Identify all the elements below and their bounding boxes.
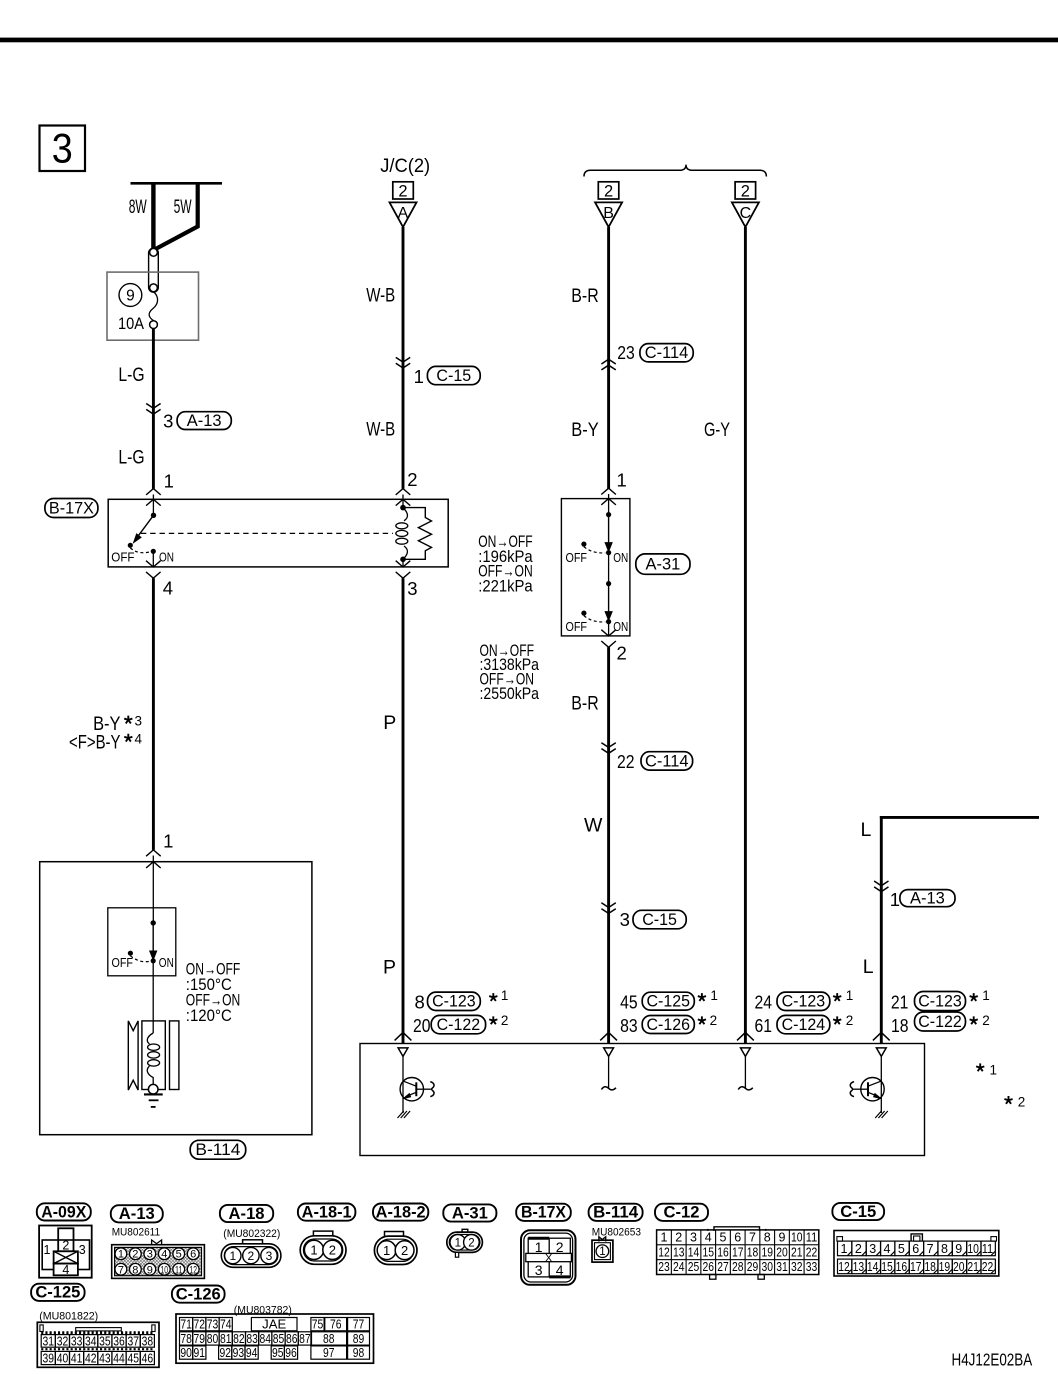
svg-text:31: 31 (43, 1334, 55, 1348)
A-31 switch1 dashed arc (584, 547, 605, 553)
svg-text:13: 13 (673, 1245, 685, 1259)
svg-text:A-18-2: A-18-2 (376, 1203, 426, 1222)
fuse number circle 9 (119, 284, 142, 307)
svg-text:36: 36 (113, 1334, 125, 1348)
wire L horizontal feed (880, 816, 1039, 819)
svg-text:35: 35 (99, 1334, 111, 1348)
svg-text:46: 46 (142, 1351, 154, 1365)
svg-text:C: C (740, 205, 752, 222)
svg-text:33: 33 (806, 1260, 818, 1274)
fuse terminal circle mid (150, 284, 158, 292)
component box B-17X (108, 499, 448, 567)
svg-text:ON: ON (613, 619, 628, 634)
svg-text:3: 3 (535, 1262, 543, 1278)
J/C triangle A (390, 202, 417, 227)
svg-text:1: 1 (310, 1243, 317, 1258)
svg-text:45: 45 (127, 1351, 139, 1365)
transistor symbol left (thermistor sensor) (402, 1056, 404, 1113)
svg-text:9: 9 (955, 1242, 962, 1256)
svg-text:2: 2 (401, 1243, 408, 1258)
svg-text:22: 22 (617, 751, 635, 772)
svg-text:A-31: A-31 (452, 1203, 488, 1222)
svg-text:42: 42 (85, 1351, 97, 1365)
svg-text:84: 84 (260, 1332, 272, 1346)
pin socket triangle (604, 1048, 614, 1057)
svg-text:28: 28 (732, 1260, 744, 1274)
svg-text:12: 12 (838, 1260, 850, 1274)
svg-text::221kPa: :221kPa (478, 577, 533, 595)
svg-text:29: 29 (747, 1260, 759, 1274)
svg-text:B-R: B-R (571, 692, 598, 714)
svg-text:1: 1 (535, 1239, 543, 1255)
svg-text:6: 6 (734, 1231, 741, 1245)
svg-text:3: 3 (147, 1249, 153, 1261)
svg-text:C-123: C-123 (782, 993, 826, 1011)
wire B-Y from B-17X to B-114 (152, 578, 155, 850)
svg-text:30: 30 (762, 1260, 774, 1274)
svg-text:3: 3 (52, 125, 73, 172)
svg-text:4: 4 (163, 578, 173, 599)
connector label capsule C-126 (172, 1286, 225, 1303)
svg-text:1: 1 (617, 469, 627, 490)
svg-text::120°C: :120°C (186, 1007, 232, 1025)
svg-text:C-15: C-15 (436, 367, 471, 385)
svg-text:ON: ON (159, 549, 174, 564)
svg-text:C-124: C-124 (782, 1016, 826, 1034)
svg-text:1: 1 (661, 1231, 668, 1245)
J/C triangle B (595, 202, 622, 227)
svg-text:1: 1 (501, 988, 509, 1003)
page number box 3 (40, 126, 86, 172)
svg-text:G-Y: G-Y (704, 419, 730, 441)
A-31 switch2 ON dot (606, 619, 611, 624)
svg-text:43: 43 (99, 1351, 111, 1365)
svg-text:22: 22 (806, 1245, 818, 1259)
svg-text:94: 94 (246, 1346, 258, 1360)
svg-text:3: 3 (266, 1249, 273, 1263)
compressor pin chevron (873, 1032, 890, 1040)
svg-text:1: 1 (990, 1063, 998, 1078)
svg-text:L-G: L-G (118, 446, 144, 468)
svg-text:14: 14 (867, 1260, 879, 1274)
capsule label B-17X (45, 499, 98, 518)
svg-text:8: 8 (941, 1242, 948, 1256)
connector label capsule C-12 (655, 1204, 708, 1221)
svg-text:(MU801822): (MU801822) (39, 1311, 98, 1323)
svg-text:1: 1 (840, 1242, 847, 1256)
svg-text:7: 7 (749, 1231, 756, 1245)
B-17X ON contact dot (151, 549, 156, 554)
svg-text:A-09X: A-09X (41, 1202, 87, 1221)
svg-text:2: 2 (398, 183, 407, 201)
svg-text:2: 2 (617, 643, 627, 664)
svg-text:W: W (584, 815, 603, 837)
svg-text:39: 39 (43, 1351, 55, 1365)
svg-text:83: 83 (246, 1332, 258, 1346)
svg-text:82: 82 (233, 1332, 245, 1346)
svg-text:27: 27 (717, 1260, 729, 1274)
svg-text:17: 17 (910, 1260, 922, 1274)
svg-text:9: 9 (126, 288, 135, 305)
B-17X pin diagram (521, 1230, 576, 1285)
svg-text:2: 2 (846, 1013, 854, 1028)
svg-text:B-114: B-114 (593, 1203, 639, 1222)
A-31 link wire (608, 553, 610, 584)
svg-text:24: 24 (673, 1260, 685, 1274)
svg-text:1: 1 (846, 988, 854, 1003)
svg-text:74: 74 (220, 1318, 232, 1332)
svg-text:OFF: OFF (566, 550, 588, 565)
A-09X pin diagram (39, 1226, 92, 1278)
svg-text:11: 11 (175, 1264, 183, 1276)
svg-text:3: 3 (690, 1231, 697, 1245)
compressor pin chevron (600, 1032, 617, 1040)
svg-text:89: 89 (353, 1332, 365, 1346)
svg-text:2: 2 (132, 1249, 138, 1261)
svg-text:5W: 5W (174, 196, 192, 218)
A-31 switch2 moving contact (608, 584, 610, 612)
svg-text:4: 4 (161, 1249, 167, 1261)
wire B-R lower from A-31 (607, 647, 610, 1043)
svg-text:78: 78 (180, 1332, 192, 1346)
svg-text:8: 8 (764, 1231, 771, 1245)
svg-text:<F>B-Y: <F>B-Y (69, 731, 121, 753)
A-31 switch2 OFF dot (581, 611, 586, 616)
svg-text:4: 4 (62, 1263, 69, 1277)
svg-text:95: 95 (272, 1346, 284, 1360)
svg-text:4: 4 (705, 1231, 712, 1245)
J/C box 2 (B) (598, 182, 619, 199)
svg-text:77: 77 (353, 1318, 365, 1332)
svg-text:C-15: C-15 (642, 911, 677, 929)
motor housing middle frame (142, 1021, 165, 1090)
motor housing left notched band (128, 1021, 138, 1090)
svg-text:6: 6 (190, 1249, 196, 1261)
svg-text:10: 10 (967, 1242, 979, 1256)
B-17X OFF contact dot (128, 543, 133, 548)
component box A-31 dual pressure switch (561, 499, 630, 636)
svg-text:21: 21 (791, 1245, 803, 1259)
component box compressor assembly (360, 1044, 925, 1156)
svg-text:C-126: C-126 (647, 1016, 691, 1034)
svg-text:3: 3 (163, 411, 173, 432)
pin socket triangle (876, 1048, 886, 1057)
connector crossing 3 C-15 (601, 903, 615, 908)
B-17X relay top node dot (402, 495, 404, 508)
svg-text:5: 5 (176, 1249, 182, 1261)
J/C box 2 (C) (735, 182, 756, 199)
A-31 switch1 pivot dot (606, 512, 611, 517)
svg-text:72: 72 (194, 1318, 206, 1332)
J/C triangle C (732, 202, 759, 227)
svg-text:92: 92 (219, 1346, 231, 1360)
svg-text:A: A (398, 205, 409, 222)
fuse terminal circle bottom (150, 321, 158, 329)
fuse terminal circle top (150, 248, 158, 256)
svg-text:86: 86 (286, 1332, 298, 1346)
svg-text:H4J12E02BA: H4J12E02BA (952, 1349, 1033, 1369)
svg-text:W-B: W-B (366, 284, 395, 306)
svg-text:73: 73 (207, 1318, 219, 1332)
svg-text:10: 10 (161, 1264, 169, 1276)
svg-text:4: 4 (884, 1242, 891, 1256)
mechanical link dashed line (141, 532, 393, 534)
svg-text:B-17X: B-17X (49, 499, 94, 517)
connector label capsule A-18-1 (298, 1204, 356, 1221)
capsule label B-114 (190, 1140, 246, 1159)
svg-text:A-13: A-13 (119, 1204, 155, 1223)
svg-text:C-125: C-125 (647, 993, 691, 1011)
svg-text:9: 9 (147, 1264, 153, 1276)
svg-text:19: 19 (762, 1245, 774, 1259)
svg-text:C-123: C-123 (918, 992, 962, 1010)
ground bars (144, 1093, 163, 1095)
svg-text:B-Y: B-Y (571, 419, 598, 441)
svg-text:2: 2 (329, 1243, 336, 1258)
svg-text:31: 31 (776, 1260, 788, 1274)
svg-text:L: L (863, 956, 874, 978)
svg-text:2: 2 (501, 1013, 509, 1028)
svg-text:20: 20 (776, 1245, 788, 1259)
svg-text:A-13: A-13 (187, 412, 222, 430)
ground left (398, 1111, 411, 1118)
svg-text:3: 3 (135, 713, 143, 728)
pin socket triangle (398, 1048, 408, 1057)
svg-text:91: 91 (194, 1346, 206, 1360)
transistor symbol right (880, 1056, 882, 1113)
C-126 pin diagram (176, 1314, 374, 1363)
svg-text:10: 10 (791, 1231, 803, 1245)
svg-text:2: 2 (468, 1237, 474, 1249)
connector crossing 3 A-13 (146, 404, 160, 409)
A-31 switch2 pivot dot (606, 581, 611, 586)
A-31 switch1 moving contact (608, 515, 610, 543)
svg-text:18: 18 (891, 1015, 909, 1036)
brace over J/C B and C (584, 165, 766, 177)
svg-text:C-12: C-12 (664, 1203, 700, 1222)
svg-text:1: 1 (44, 1243, 51, 1257)
connector label capsule A-18 (220, 1205, 273, 1222)
svg-text:11: 11 (806, 1231, 818, 1245)
svg-text:97: 97 (323, 1346, 335, 1360)
svg-text:8: 8 (415, 991, 425, 1012)
connector label capsule A-18-2 (373, 1204, 428, 1221)
wire 8W vertical feed (151, 183, 155, 250)
svg-text:88: 88 (323, 1332, 335, 1346)
C-125 pin diagram (37, 1322, 159, 1367)
svg-text:37: 37 (127, 1334, 139, 1348)
A-31 switch2 dashed arc (584, 616, 605, 622)
svg-text:20: 20 (953, 1260, 965, 1274)
motor coil winding (147, 1033, 153, 1044)
svg-text:1: 1 (455, 1237, 461, 1249)
svg-text:C-114: C-114 (645, 752, 689, 770)
svg-text:1: 1 (982, 988, 990, 1003)
svg-text:5: 5 (898, 1242, 905, 1256)
svg-text:P: P (383, 957, 396, 979)
B-114 pin diagram (599, 1237, 606, 1242)
svg-text:12: 12 (658, 1245, 670, 1259)
wire B-R from J/C B (607, 227, 610, 489)
component box B-114 (40, 862, 312, 1135)
svg-text:41: 41 (71, 1351, 83, 1365)
svg-text:2: 2 (1018, 1095, 1026, 1110)
svg-text:3: 3 (620, 909, 630, 930)
svg-text:C-15: C-15 (840, 1202, 876, 1221)
connector label capsule A-13 (111, 1205, 163, 1222)
wire G-Y from J/C C to compressor (744, 227, 747, 1044)
footnote *2 (1004, 1096, 1012, 1104)
svg-text:2: 2 (248, 1249, 255, 1263)
svg-text:A-13: A-13 (910, 890, 945, 908)
C-15 pin diagram (834, 1231, 999, 1277)
wire continuation squiggle mid-left (608, 1056, 610, 1088)
svg-text:38: 38 (142, 1334, 154, 1348)
svg-text:W-B: W-B (366, 418, 395, 440)
svg-text:11: 11 (982, 1242, 994, 1256)
svg-text:L: L (861, 819, 872, 841)
B-17X relay bottom node dot (400, 557, 406, 563)
compressor pin chevron (737, 1032, 754, 1040)
svg-text:(MU802322): (MU802322) (223, 1228, 280, 1240)
svg-text:8W: 8W (129, 196, 147, 218)
svg-text:16: 16 (717, 1245, 729, 1259)
svg-text:2: 2 (556, 1239, 564, 1255)
wire switch to motor coil (152, 961, 154, 1033)
fuse box outline (107, 272, 199, 340)
svg-text:3: 3 (79, 1243, 86, 1257)
svg-text:33: 33 (71, 1334, 83, 1348)
svg-text:4: 4 (135, 731, 143, 746)
svg-text:25: 25 (688, 1260, 700, 1274)
svg-text::2550kPa: :2550kPa (480, 685, 540, 703)
svg-text:C-122: C-122 (437, 1016, 481, 1034)
svg-text:1: 1 (414, 366, 424, 387)
svg-text:C-123: C-123 (432, 993, 476, 1011)
svg-text:19: 19 (939, 1260, 951, 1274)
svg-text:23: 23 (658, 1260, 670, 1274)
svg-text:ON: ON (613, 550, 628, 565)
svg-text:26: 26 (703, 1260, 715, 1274)
footnote *1 (976, 1063, 984, 1071)
svg-text:2: 2 (675, 1231, 682, 1245)
A-18 pin diagram (243, 1240, 263, 1245)
svg-text:MU802611: MU802611 (112, 1227, 160, 1239)
svg-text:21: 21 (891, 991, 909, 1012)
svg-text:1: 1 (890, 889, 900, 910)
A-18-2 pin diagram (385, 1232, 404, 1237)
svg-text:3: 3 (407, 578, 417, 599)
pin socket triangle (741, 1048, 751, 1057)
svg-text:A-31: A-31 (646, 556, 681, 574)
svg-text:7: 7 (118, 1264, 124, 1276)
wire W-B from J/C to B-17X (402, 227, 405, 489)
A-13 pin diagram (152, 1240, 162, 1245)
svg-text:18: 18 (924, 1260, 936, 1274)
svg-text:87: 87 (299, 1332, 311, 1346)
svg-text:1: 1 (599, 1246, 605, 1258)
A-31 pin diagram (462, 1229, 468, 1232)
connector crossing 1 A-13 (874, 881, 888, 886)
svg-text:B-R: B-R (571, 285, 598, 307)
svg-text:80: 80 (207, 1332, 219, 1346)
capsule label A-31 (636, 554, 690, 574)
A-31 wire to pin 2 (608, 622, 610, 636)
J/C box 2 (A) (393, 182, 414, 199)
svg-text:1: 1 (118, 1249, 124, 1261)
wire 5W feed (155, 183, 198, 249)
svg-text:3: 3 (869, 1242, 876, 1256)
svg-text:45: 45 (620, 991, 638, 1012)
svg-text:93: 93 (233, 1346, 245, 1360)
svg-text:32: 32 (57, 1334, 69, 1348)
svg-text:6: 6 (912, 1242, 919, 1256)
fusible link holder (149, 248, 159, 292)
svg-text:1: 1 (710, 988, 718, 1003)
svg-text:2: 2 (741, 183, 750, 201)
compressor pin chevron (395, 1032, 412, 1040)
svg-text:B-17X: B-17X (521, 1203, 567, 1222)
thermo dashed throw arc (130, 956, 150, 962)
svg-text:83: 83 (620, 1015, 638, 1036)
connector crossing 22 C-114 (601, 743, 615, 748)
svg-text:34: 34 (85, 1334, 97, 1348)
svg-text:C-122: C-122 (918, 1013, 962, 1031)
svg-text:10A: 10A (118, 315, 144, 333)
B-17X dashed throw arc (130, 548, 150, 553)
svg-text:J/C(2): J/C(2) (380, 156, 430, 177)
svg-text:A-18: A-18 (229, 1204, 265, 1223)
svg-text:OFF: OFF (111, 549, 134, 564)
svg-text:JAE: JAE (262, 1318, 286, 1332)
svg-text:2: 2 (407, 469, 417, 490)
svg-text:1: 1 (383, 1243, 390, 1258)
svg-text:40: 40 (57, 1351, 69, 1365)
B-114 thermo switch box (108, 908, 176, 976)
A-31 wire to first switch (608, 494, 610, 515)
fuse element squiggle (149, 292, 157, 321)
B-17X wire ON to pin 4 (152, 551, 154, 567)
svg-text:9: 9 (779, 1231, 786, 1245)
svg-text:1: 1 (229, 1249, 236, 1263)
svg-text:14: 14 (688, 1245, 700, 1259)
ground right (875, 1111, 888, 1118)
wire L-G from fuse to B-17X (152, 329, 155, 489)
connector label capsule C-15 (832, 1203, 884, 1220)
svg-text:71: 71 (180, 1318, 192, 1332)
svg-text:16: 16 (896, 1260, 908, 1274)
svg-text:90: 90 (180, 1346, 192, 1360)
svg-text:98: 98 (353, 1346, 365, 1360)
connector label capsule C-125 (31, 1284, 85, 1301)
svg-text:8: 8 (132, 1264, 138, 1276)
svg-text:2: 2 (62, 1239, 69, 1253)
C-12 pin diagram (714, 1227, 760, 1231)
svg-text:61: 61 (755, 1015, 773, 1036)
thermo switch moving contact (152, 923, 154, 952)
svg-text:79: 79 (194, 1332, 206, 1346)
svg-text:81: 81 (220, 1332, 232, 1346)
svg-text:L-G: L-G (118, 364, 144, 386)
connector label capsule A-09X (37, 1203, 91, 1220)
svg-text:C-125: C-125 (35, 1283, 80, 1302)
power bus horizontal wire (131, 182, 223, 185)
svg-text:5: 5 (720, 1231, 727, 1245)
svg-text:15: 15 (881, 1260, 893, 1274)
svg-text:17: 17 (732, 1245, 744, 1259)
wire P from B-17X to compressor (402, 578, 405, 1043)
motor terminal circle (148, 1084, 158, 1094)
